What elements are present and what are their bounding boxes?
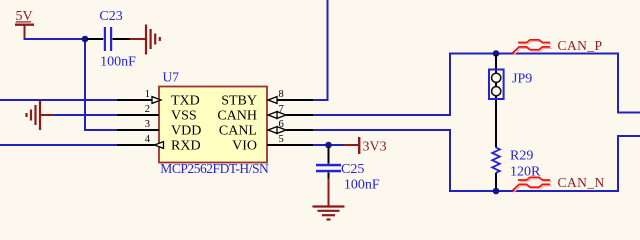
wire RXD output [0, 144, 117, 146]
ground (below C25) [313, 179, 345, 220]
wire TXD input [0, 99, 117, 101]
power port 3V3 [344, 137, 387, 155]
svg-text:C23: C23 [99, 9, 122, 24]
svg-text:C25: C25 [341, 162, 364, 177]
ground (right of C23) [130, 25, 160, 55]
svg-text:VDD: VDD [171, 124, 201, 139]
svg-text:3V3: 3V3 [363, 140, 387, 155]
capacitor C23 [87, 9, 136, 70]
svg-text:JP9: JP9 [512, 72, 532, 87]
pin 5 VIO [232, 134, 313, 154]
pin 1 TXD [117, 89, 200, 109]
node CAN_P junction [493, 50, 500, 57]
connector JP9 [489, 70, 532, 100]
wire VIO net [313, 144, 344, 146]
power port 5V [15, 9, 34, 40]
svg-text:VSS: VSS [171, 109, 197, 124]
pin 6 CANL [219, 119, 313, 139]
svg-text:CAN_P: CAN_P [558, 38, 603, 53]
svg-text:5: 5 [279, 134, 284, 145]
ground (VSS, left) [27, 100, 55, 130]
capacitor C25 [316, 147, 380, 193]
pin 4 RXD [117, 134, 201, 154]
svg-text:2: 2 [145, 104, 150, 115]
svg-text:TXD: TXD [171, 94, 200, 109]
svg-text:3: 3 [145, 119, 150, 130]
node VIO junction [325, 142, 332, 149]
wire 5V rail to junction [24, 38, 86, 40]
differential pair directive CAN_P [512, 40, 552, 55]
wire STBY net [313, 0, 328, 100]
svg-text:1: 1 [145, 89, 150, 100]
wire CANH to CAN_P [313, 54, 640, 116]
differential pair directive CAN_N [512, 177, 552, 192]
svg-text:6: 6 [279, 119, 284, 130]
svg-text:100nF: 100nF [344, 178, 380, 193]
svg-text:U7: U7 [163, 69, 180, 84]
svg-text:VIO: VIO [232, 139, 257, 154]
svg-text:MCP2562FDT-H/SN: MCP2562FDT-H/SN [160, 161, 269, 176]
svg-text:RXD: RXD [171, 139, 201, 154]
op-amp U7 body MCP2562 [159, 69, 269, 176]
resistor R29 [492, 148, 541, 190]
svg-text:7: 7 [279, 104, 284, 115]
svg-text:8: 8 [279, 89, 284, 100]
svg-text:CAN_N: CAN_N [558, 175, 605, 190]
svg-text:R29: R29 [510, 149, 533, 164]
svg-text:100nF: 100nF [100, 55, 136, 70]
pin 7 CANH [217, 104, 313, 124]
svg-text:CANL: CANL [219, 124, 257, 139]
wire VSS [54, 114, 117, 116]
wire CANL to CAN_N [313, 130, 640, 191]
pin 8 STBY [221, 89, 313, 109]
net label CAN_N [558, 175, 605, 190]
node CAN_N junction [493, 188, 500, 195]
net label CAN_P [558, 38, 603, 53]
svg-text:STBY: STBY [221, 94, 257, 109]
pin 3 VDD [117, 119, 201, 139]
svg-text:4: 4 [145, 134, 151, 145]
wire VDD rail vertical [85, 39, 117, 130]
pin 2 VSS [117, 104, 197, 124]
wire JP9/R29 branch [495, 55, 497, 148]
node 5V junction [82, 36, 89, 43]
svg-text:CANH: CANH [217, 109, 257, 124]
